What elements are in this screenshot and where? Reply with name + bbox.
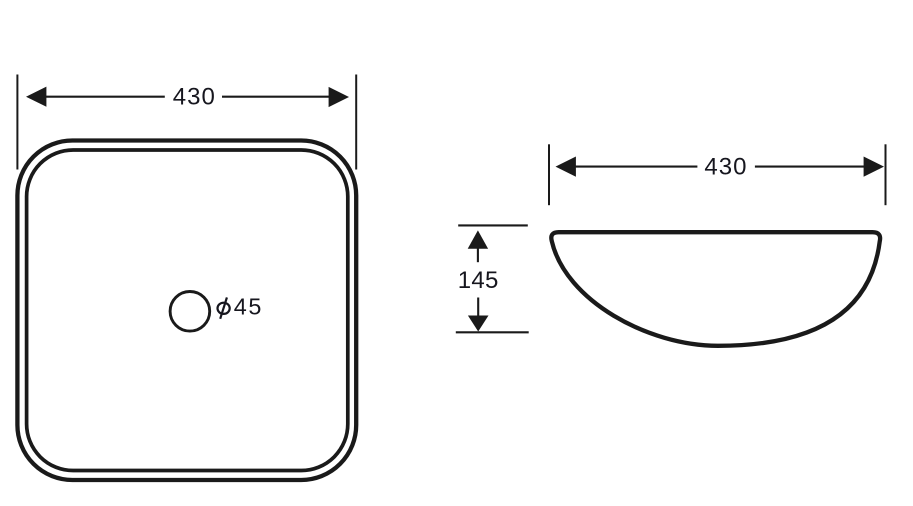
dimension line 430 (top view), right segment xyxy=(222,96,344,98)
dimension line 430 (top view), left segment xyxy=(30,96,165,98)
arrowhead left (side view 430) xyxy=(556,157,576,177)
phi symbol loop (drain dia label) xyxy=(218,303,230,314)
arrowhead right (top view 430) xyxy=(329,87,349,107)
arrowhead down (145 dim) xyxy=(468,316,489,332)
arrowhead up (145 dim) xyxy=(468,230,488,248)
drain hole circle xyxy=(170,292,210,332)
svg-text:430: 430 xyxy=(173,84,216,111)
arrowhead left (top view 430) xyxy=(26,87,46,107)
svg-text:45: 45 xyxy=(234,293,263,319)
phi symbol stroke xyxy=(220,297,227,318)
dimension line 145, upper segment xyxy=(477,248,479,262)
dimension line 430 (side view), right segment xyxy=(755,166,867,168)
basin inner contour (rounded square) xyxy=(27,150,348,471)
extension line right (side-view width dim) xyxy=(885,144,887,205)
extension line right (top-view width dim) xyxy=(355,75,357,170)
basin side profile (bowl) xyxy=(551,232,880,346)
height dim top reference line xyxy=(458,224,528,226)
svg-text:430: 430 xyxy=(704,153,747,180)
height dim bottom reference line xyxy=(456,331,529,333)
extension line left (side-view width dim) xyxy=(548,144,550,205)
dimension line 430 (side view), left segment xyxy=(572,166,697,168)
svg-text:145: 145 xyxy=(458,267,499,294)
basin outer contour (rounded square) xyxy=(17,141,356,481)
extension line left (top-view width dim) xyxy=(16,75,18,170)
dimension line 145, lower segment xyxy=(477,298,479,317)
arrowhead right (side view 430) xyxy=(864,157,884,177)
